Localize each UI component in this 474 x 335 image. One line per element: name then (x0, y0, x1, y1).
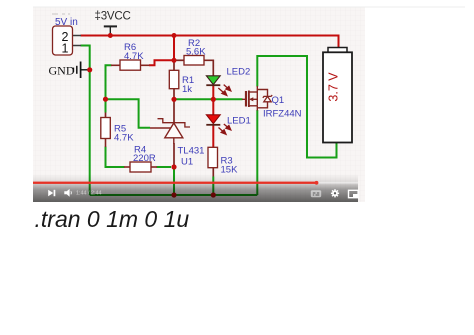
svg-text:3.7 V: 3.7 V (327, 72, 341, 102)
svg-text:‡3VCC: ‡3VCC (95, 10, 131, 22)
svg-text:LED2: LED2 (227, 67, 251, 78)
svg-text:4.7K: 4.7K (124, 51, 144, 62)
junction: GND symbol on ground column (87, 67, 92, 72)
resistor R6 (111, 42, 150, 70)
next button (48, 190, 55, 196)
svg-text:4.7K: 4.7K (114, 133, 134, 144)
pin: R1 bottom (173, 89, 175, 100)
wire: R4 right to anode node (157, 166, 172, 168)
resistor R2 (174, 38, 206, 65)
resistor R5 (101, 118, 134, 148)
wire: divider node to TL431 ref (106, 99, 151, 128)
junction: divider node R6/R5/REF (103, 97, 108, 102)
junction: R4 / TL431 anode (171, 164, 176, 169)
LED1 red (206, 115, 250, 135)
subtitles icon (311, 190, 321, 197)
svg-text:IRFZ44N: IRFZ44N (263, 109, 302, 120)
wire: source down to ground bus (256, 110, 258, 195)
wire: R5 bottom to R4 left (106, 147, 125, 168)
junction: node R6/R2/R1 (172, 58, 177, 63)
pin: R1 top (173, 60, 175, 70)
wire: node to LED1 anode (212, 99, 214, 115)
volume icon (64, 189, 71, 197)
junction: gate bus / R1 / TL431 cathode (171, 97, 176, 102)
wire: bus to R2/R1 node (173, 36, 175, 61)
wire: R6 right jog to R2 node (149, 60, 174, 65)
svg-text:5.6K: 5.6K (186, 47, 206, 58)
schematic canvas background (33, 7, 365, 202)
svg-text:TL431: TL431 (178, 146, 205, 157)
wire: divider node to R6 left (106, 65, 112, 99)
pin: R5 top (105, 113, 107, 118)
svg-text:1k: 1k (182, 84, 192, 95)
LED2 green (206, 67, 250, 96)
miniplayer icon (349, 190, 359, 197)
svg-text:1:44 / 2:44: 1:44 / 2:44 (76, 191, 101, 197)
junction: R3 branch on ground bus (211, 192, 216, 197)
pin: TL431 cathode (173, 99, 175, 122)
pin: TL431 anode down (173, 143, 175, 167)
seek bar remainder (319, 182, 359, 184)
wire: drain loop to battery minus (257, 56, 336, 158)
faint top hairline (33, 6, 465, 8)
settings gear (331, 189, 339, 197)
connector J1 pin leads (73, 36, 82, 46)
svg-text:GND: GND (49, 64, 75, 78)
svg-text:1: 1 (62, 42, 69, 56)
resistor R1 (169, 70, 194, 95)
seek bar red (33, 182, 317, 184)
spice directive text (35, 207, 190, 232)
svg-text:220R: 220R (133, 153, 156, 164)
battery BT1 3.7V (323, 48, 352, 143)
wire: ground bottom bus (90, 194, 258, 196)
svg-text:15K: 15K (221, 165, 239, 176)
svg-text:LED1: LED1 (227, 116, 251, 127)
junction: anode branch on ground bus (171, 192, 176, 197)
resistor R4 (124, 145, 157, 173)
wire: pin1 to GND column green (81, 46, 90, 196)
power flag +3VCC (95, 10, 131, 35)
player control bar gradient (33, 174, 358, 202)
shunt regulator U1 TL431 (150, 119, 204, 168)
wire: R2 right to LED2 anode (pin colour) (204, 60, 213, 76)
wire: LED2 cathode to node (212, 86, 214, 100)
faint dashes artifact above 5V in (52, 13, 70, 15)
junction: gate bus / LED2 / LED1 (211, 97, 216, 102)
body diode of Q1 (264, 96, 271, 101)
wire: LED1 cathode to R3 top (212, 125, 214, 147)
transistor Q1 IRFZ44N (242, 86, 302, 120)
wire: R3 to ground bus (212, 177, 214, 196)
wire: divider node to R5 top (105, 99, 107, 112)
wire: anode node to ground bus (173, 167, 175, 195)
ground symbol GND (49, 62, 90, 79)
svg-text:5V in: 5V in (55, 17, 78, 28)
pin: R3 bottom (212, 168, 214, 177)
junction: +3VCC flag on +5V bus (108, 33, 113, 38)
wire: +5V top bus (81, 36, 339, 48)
svg-text:U1: U1 (181, 156, 193, 167)
svg-text:Q1: Q1 (272, 95, 285, 106)
resistor R3 (208, 147, 238, 175)
junction: bus / R1-R2 column (172, 33, 177, 38)
wire: gate bus green (174, 98, 243, 100)
connector J1 body (53, 26, 73, 55)
